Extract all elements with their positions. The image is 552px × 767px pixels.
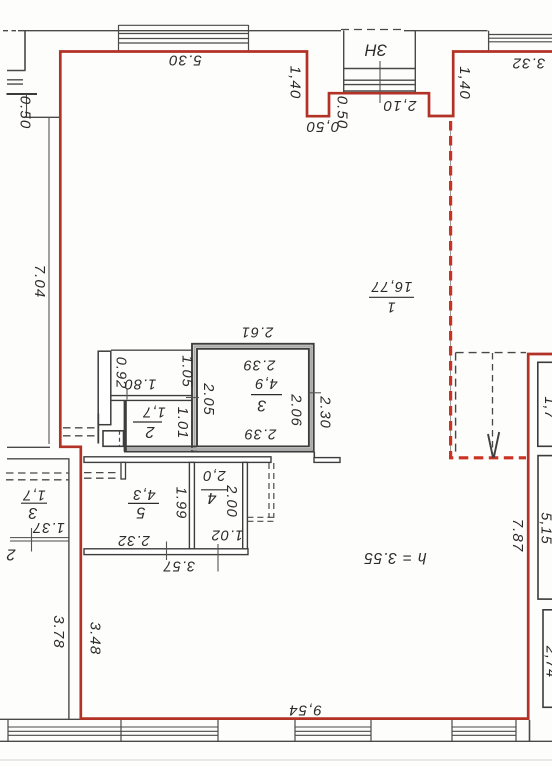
svg-text:1.02: 1.02 <box>211 527 243 543</box>
svg-text:5: 5 <box>136 503 145 520</box>
svg-text:3.57: 3.57 <box>163 558 195 574</box>
svg-text:0.50: 0.50 <box>334 96 351 130</box>
wall top-left dash-dot lead <box>3 30 16 32</box>
wire tick 1.02 <box>217 544 219 572</box>
wall room5-room4 divider <box>189 462 194 549</box>
wire tick 2.06-2.30 <box>309 392 321 394</box>
wall stub room5 corner <box>121 462 126 479</box>
wall left neighbour second <box>7 458 70 460</box>
room 3 inner wall line <box>197 349 309 447</box>
svg-text:2.61: 2.61 <box>241 324 274 340</box>
wall top-right jamb tick <box>488 31 490 52</box>
wall bottom exterior band <box>0 718 80 720</box>
svg-text:2.39: 2.39 <box>243 357 276 373</box>
svg-text:2.00: 2.00 <box>223 484 239 517</box>
svg-text:1,40: 1,40 <box>456 66 473 100</box>
svg-text:9,54: 9,54 <box>288 702 322 719</box>
svg-text:2.30: 2.30 <box>317 395 333 428</box>
svg-text:2,0: 2,0 <box>202 467 226 483</box>
svg-text:4: 4 <box>207 489 216 506</box>
svg-text:4,3: 4,3 <box>132 486 155 502</box>
wall right neighbour room A <box>538 362 552 446</box>
wall red unit outline <box>60 52 552 719</box>
wall dashed closet right of room4 <box>269 463 274 518</box>
svg-text:7.87: 7.87 <box>509 519 526 553</box>
svg-text:1,7: 1,7 <box>142 404 165 420</box>
window niche bay (3H) <box>344 31 416 94</box>
wire tick 1.05-1.01 <box>186 397 199 399</box>
svg-text:h = 3.55: h = 3.55 <box>364 549 427 566</box>
svg-text:3: 3 <box>28 504 37 521</box>
wall hall-room2 divider <box>112 396 192 401</box>
room 2 bottom wall lines <box>124 446 197 451</box>
svg-text:1: 1 <box>386 299 395 315</box>
wall bottom outer face line <box>0 740 552 742</box>
wall rooms 4-5 bottom <box>84 549 248 555</box>
wire tick 1.37 <box>31 528 33 552</box>
wall top-left neighbour pier <box>24 31 26 71</box>
svg-text:2.06: 2.06 <box>288 393 304 426</box>
door entrance dashed rectangle <box>456 353 526 455</box>
svg-text:1.37: 1.37 <box>32 519 64 535</box>
svg-text:1,7: 1,7 <box>541 396 552 419</box>
svg-text:7.04: 7.04 <box>31 265 48 299</box>
svg-text:3.48: 3.48 <box>87 622 104 656</box>
svg-text:0.50: 0.50 <box>17 96 34 130</box>
wire stair ticks left <box>7 71 26 85</box>
room 3 wall mid tone <box>195 346 312 449</box>
svg-text:2,74: 2,74 <box>543 645 552 678</box>
wall step at left y117 <box>26 116 60 118</box>
wall rooms 4-5 top <box>84 457 271 463</box>
door dashed opening to hall <box>63 428 97 436</box>
wall left neighbour top <box>7 446 50 448</box>
wire thin line under red dashed partition <box>450 121 452 457</box>
svg-text:ЗН: ЗН <box>365 41 387 59</box>
wall left neighbour face line <box>48 117 50 444</box>
room 2 left wall <box>124 400 127 451</box>
door dashed opening room5 <box>84 473 119 479</box>
wire faint scan line bottom <box>0 759 552 761</box>
wire niche centre tick <box>379 61 381 103</box>
svg-text:1.80: 1.80 <box>124 376 156 392</box>
wall dashed outer line above niche <box>341 29 404 31</box>
wire entrance arrow head <box>488 432 499 458</box>
wall red dashed partition <box>451 121 526 458</box>
svg-text:5,15: 5,15 <box>538 512 552 544</box>
wall bottom-right corner pier <box>529 720 531 741</box>
wall left neighbour right face <box>68 459 70 719</box>
svg-text:2,10: 2,10 <box>383 97 418 114</box>
svg-text:3: 3 <box>257 396 266 413</box>
svg-text:3.32: 3.32 <box>512 55 546 72</box>
wire left neighbour dim lines 1.37 <box>10 538 69 541</box>
svg-text:3.78: 3.78 <box>50 615 67 649</box>
svg-text:1.05: 1.05 <box>179 355 195 387</box>
wire dimension line 0.50 vertical <box>26 94 28 117</box>
svg-text:2: 2 <box>145 423 155 440</box>
wire entrance arrow shaft <box>492 353 494 455</box>
svg-text:1,40: 1,40 <box>287 66 304 100</box>
wall entry pillar <box>103 431 124 447</box>
svg-text:1.01: 1.01 <box>174 407 190 439</box>
window top-right bay <box>489 35 552 42</box>
window top-left bay <box>119 25 249 51</box>
svg-text:2.32: 2.32 <box>117 532 150 548</box>
window bottom mullion ticks <box>8 720 516 742</box>
wall top outer building line <box>18 30 488 32</box>
wire dimension bar 0.50 <box>7 93 38 95</box>
wall right neighbour room C <box>543 610 552 708</box>
wire tick 1.80 <box>126 389 128 400</box>
wall room4 right <box>243 462 248 549</box>
svg-text:1.99: 1.99 <box>173 487 189 519</box>
window bottom glazing lines <box>8 727 516 735</box>
wall hall top thin <box>111 349 192 351</box>
svg-text:2.39: 2.39 <box>244 426 277 442</box>
wall door jamb line <box>97 414 99 444</box>
door dashed left neighbour balcony <box>6 473 69 480</box>
wall hall left pier <box>98 351 111 425</box>
room 3 outer wall line <box>192 344 314 452</box>
wall hall south piece right of room3 <box>313 452 315 458</box>
svg-text:16,77: 16,77 <box>371 278 413 294</box>
wall right neighbour room B <box>538 456 552 599</box>
svg-text:4,9: 4,9 <box>254 375 277 391</box>
svg-text:2: 2 <box>6 545 16 562</box>
svg-text:2.05: 2.05 <box>200 382 216 415</box>
svg-text:1,7: 1,7 <box>22 487 45 503</box>
svg-text:5.30: 5.30 <box>168 52 202 69</box>
wire tick 2.32-3.57 <box>166 542 168 561</box>
door dashed leaf on pillar <box>119 431 121 447</box>
